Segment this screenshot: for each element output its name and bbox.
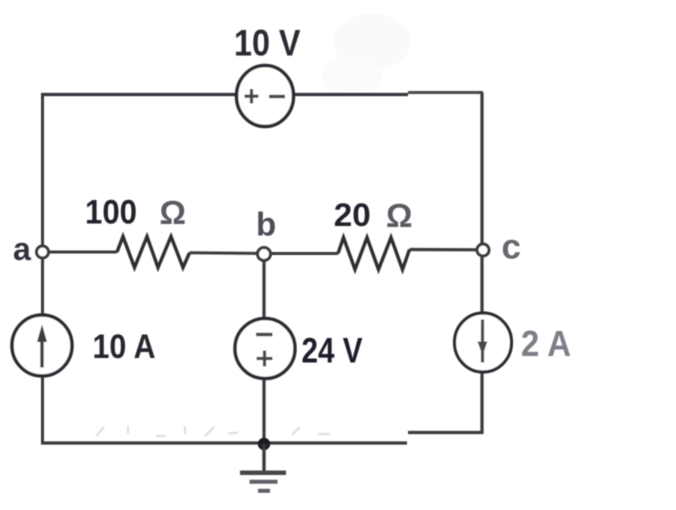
svg-text:100: 100: [85, 194, 137, 232]
voltage source V2 24V: [235, 319, 295, 379]
voltage source V1 10V: [237, 66, 294, 127]
junction dot: [258, 438, 270, 450]
svg-text:2 A: 2 A: [521, 323, 571, 364]
current source I2 2A: [455, 313, 512, 372]
wire top right segment: [408, 91, 483, 94]
wire bottom main segment: [41, 441, 407, 444]
wire R2 to node c: [410, 248, 479, 252]
resistor R2 20 ohm: [338, 238, 410, 270]
svg-text:10 V: 10 V: [234, 23, 301, 64]
current source I1 10A: [12, 315, 72, 376]
svg-text:a: a: [13, 231, 31, 267]
svg-text:b: b: [256, 206, 276, 243]
ground stub: [262, 444, 265, 471]
node a: [37, 246, 49, 258]
svg-text:Ω: Ω: [386, 197, 412, 234]
svg-text:c: c: [502, 228, 521, 267]
wire right vertical rail: [480, 93, 483, 434]
faint scan ghost marks above bottom wire: [96, 426, 330, 436]
wire node b vertical branch: [262, 254, 265, 444]
faint scan smudge right of 10V label: [334, 14, 410, 70]
svg-text:10 A: 10 A: [93, 328, 156, 366]
wire top left segment: [41, 93, 408, 96]
node c: [477, 244, 489, 256]
svg-text:Ω: Ω: [160, 194, 186, 231]
ground bar 1: [240, 471, 286, 476]
svg-text:20: 20: [334, 197, 371, 233]
wire bottom right segment: [408, 431, 484, 434]
wire left vertical rail: [41, 94, 44, 443]
wire node a to R1: [43, 251, 118, 254]
wire R1 to node b: [190, 251, 265, 255]
wire node b to R2: [264, 252, 338, 255]
ground bar 3: [258, 489, 270, 493]
ground bar 2: [250, 480, 278, 484]
resistor R1 100 ohm: [117, 237, 190, 268]
svg-text:24 V: 24 V: [302, 332, 364, 371]
node b: [258, 248, 271, 261]
